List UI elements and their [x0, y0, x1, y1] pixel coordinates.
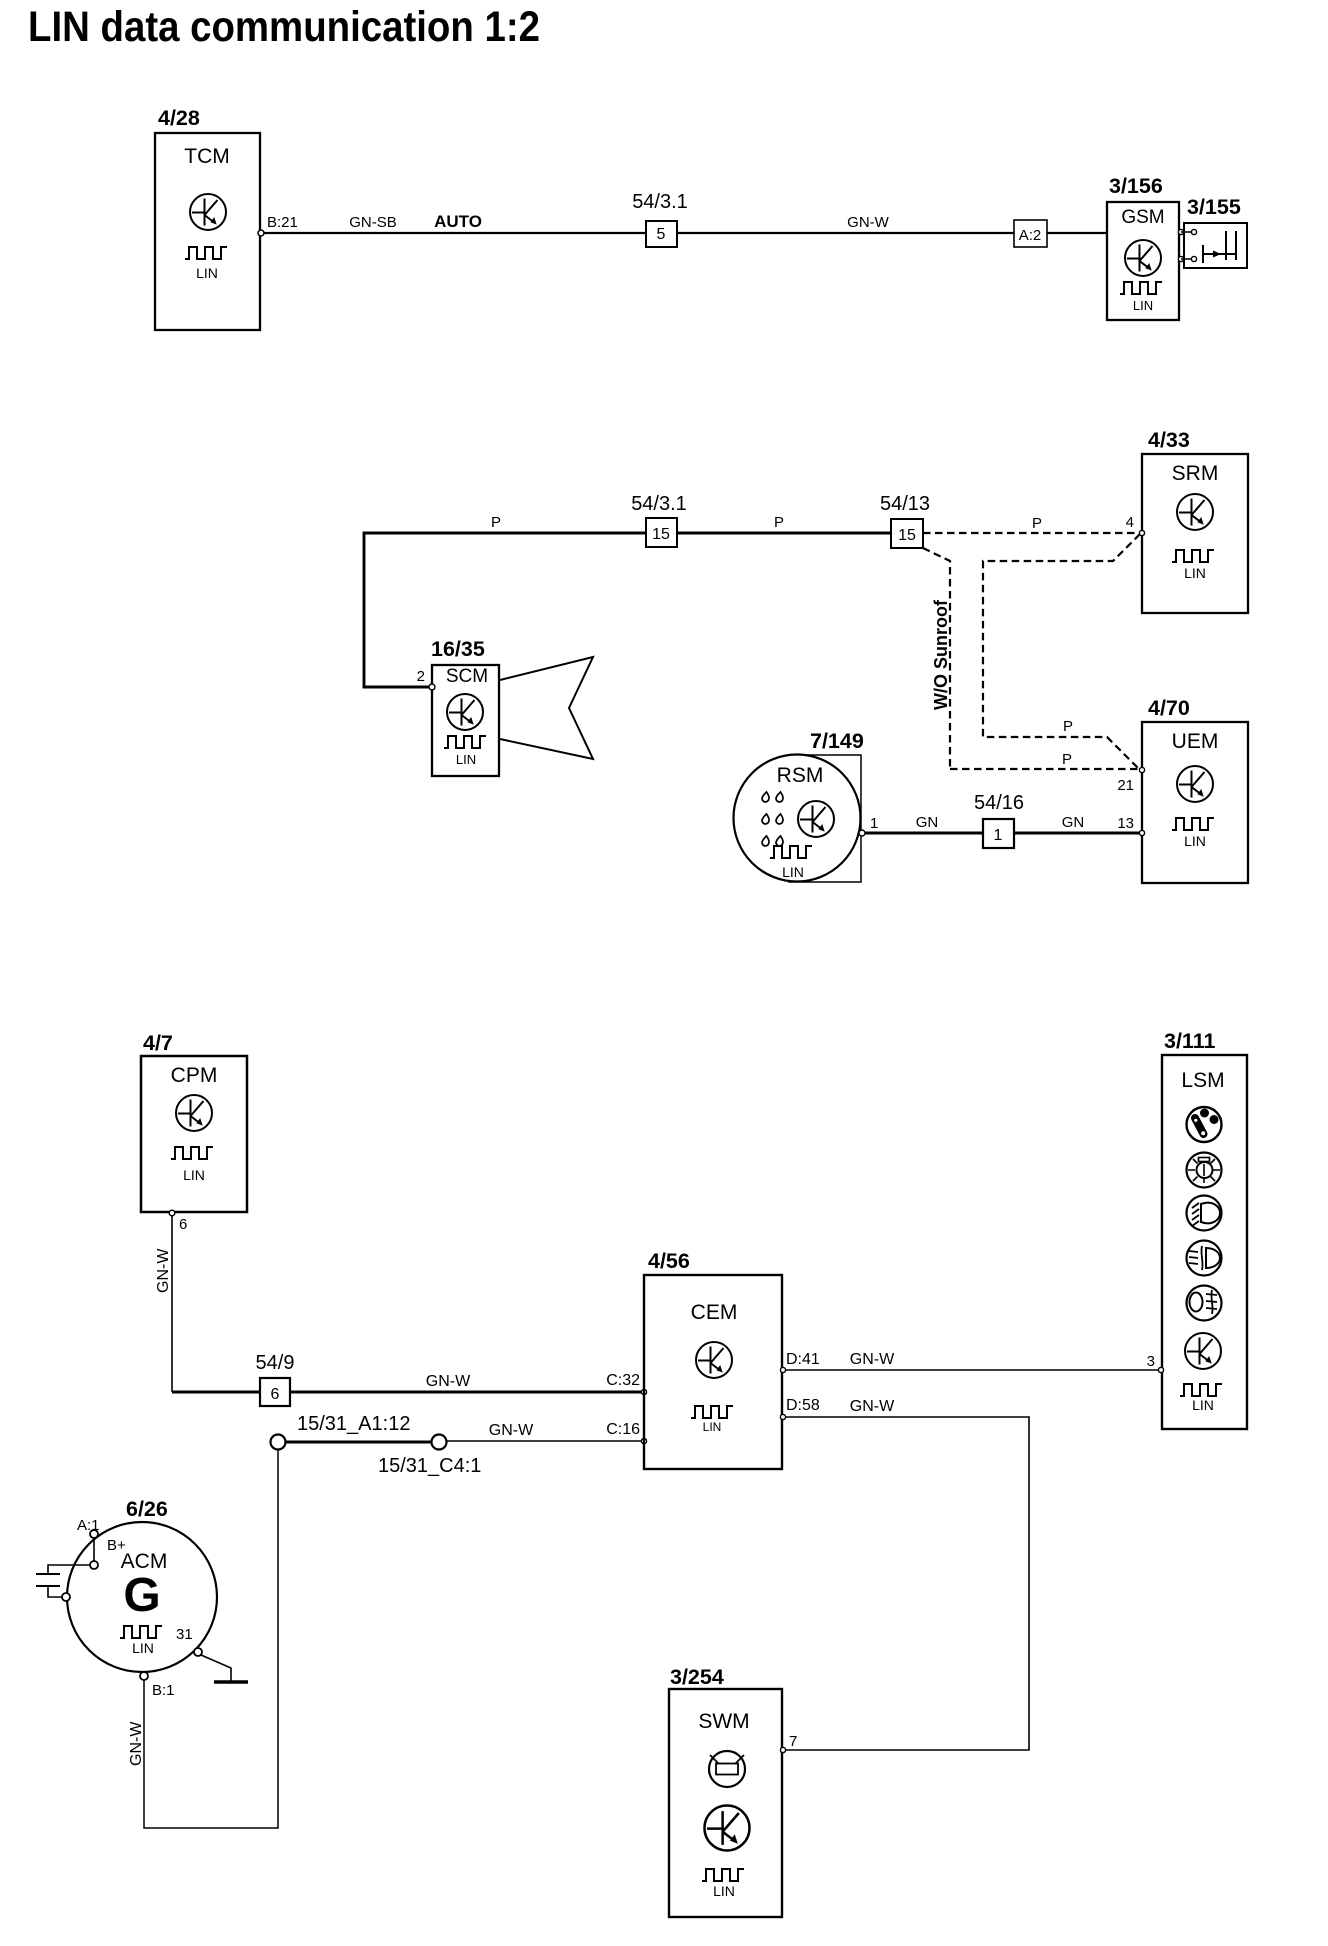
svg-text:LIN: LIN — [1184, 565, 1206, 581]
svg-text:AUTO: AUTO — [434, 212, 482, 231]
svg-text:C:16: C:16 — [606, 1421, 640, 1438]
terminal SRM pin 4 — [1126, 514, 1145, 536]
svg-text:LIN data communication 1:2: LIN data communication 1:2 — [28, 3, 540, 51]
svg-text:GN-SB: GN-SB — [349, 214, 397, 231]
wire 54/16 to UEM pin13, GN — [1014, 814, 1139, 833]
svg-text:54/3.1: 54/3.1 — [632, 191, 688, 213]
svg-text:4/33: 4/33 — [1148, 428, 1190, 452]
svg-text:D:58: D:58 — [786, 1397, 820, 1414]
svg-text:3/155: 3/155 — [1187, 195, 1241, 219]
svg-text:GN-W: GN-W — [850, 1351, 895, 1368]
svg-text:4/7: 4/7 — [143, 1031, 173, 1055]
svg-text:LIN: LIN — [703, 1420, 722, 1434]
battery feed symbol at B+ — [36, 1565, 90, 1601]
svg-text:CEM: CEM — [691, 1301, 738, 1324]
svg-text:P: P — [1032, 515, 1042, 532]
junction 15/31_A1:12 — [271, 1413, 411, 1450]
connector A:2 — [1014, 220, 1047, 247]
SWM icon switch pack — [709, 1751, 745, 1787]
svg-text:P: P — [1063, 718, 1073, 735]
svg-text:54/16: 54/16 — [974, 792, 1024, 814]
terminal TCM B:21 — [258, 214, 298, 236]
terminal CEM D:41 — [780, 1351, 819, 1373]
svg-text:7: 7 — [789, 1733, 797, 1750]
svg-text:54/3.1: 54/3.1 — [631, 493, 687, 515]
dashed wire SRM to UEM vertical — [983, 534, 1140, 770]
LSM icon low beam — [1187, 1196, 1222, 1231]
SWM square wave LIN — [702, 1869, 744, 1899]
wire junction to CEM C:16, GN-W — [447, 1422, 642, 1441]
svg-text:D:41: D:41 — [786, 1351, 820, 1368]
svg-text:UEM: UEM — [1172, 730, 1219, 753]
svg-text:GN-W: GN-W — [847, 214, 889, 231]
terminal ACM 31 — [194, 1648, 202, 1656]
svg-text:21: 21 — [1117, 777, 1134, 794]
SWM icon K control — [705, 1806, 750, 1851]
terminal RSM pin 1 — [859, 815, 878, 836]
svg-text:GN-W: GN-W — [426, 1373, 471, 1390]
svg-text:LIN: LIN — [196, 265, 218, 281]
svg-text:RSM: RSM — [777, 764, 824, 787]
svg-text:B+: B+ — [107, 1537, 126, 1554]
svg-text:5: 5 — [657, 226, 666, 243]
svg-text:CPM: CPM — [171, 1064, 218, 1087]
svg-text:1: 1 — [870, 815, 878, 832]
wire RSM to 54/16, GN — [865, 814, 983, 833]
terminal CEM C:32 — [606, 1372, 646, 1395]
svg-text:3/156: 3/156 — [1109, 174, 1163, 198]
connector 54/3.1 pin 5 — [632, 191, 688, 247]
wire CEM D:58 to SWM pin7, GN-W — [785, 1398, 1029, 1750]
rain sensor module RSM 7/149 — [734, 729, 864, 882]
wire ACM B:1 to junction 15/31, GN-W — [128, 1450, 278, 1828]
wire A:2 to GSM — [1047, 232, 1107, 234]
LSM icon light switch — [1187, 1107, 1222, 1142]
terminal ACM B+ — [90, 1537, 126, 1569]
terminal LSM pin 3 — [1147, 1353, 1164, 1373]
wire 54/3.1 to A:2, GN-W — [677, 214, 1014, 233]
dashed wire W/O Sunroof branch from 54/13 — [923, 548, 951, 769]
svg-text:3/111: 3/111 — [1164, 1029, 1215, 1053]
dashed wire 54/13 to SRM pin4, P — [923, 515, 1139, 533]
svg-text:4/70: 4/70 — [1148, 696, 1190, 720]
ground — [214, 1680, 248, 1684]
svg-text:G: G — [123, 1569, 160, 1622]
generator module ACM 6/26 — [67, 1497, 217, 1672]
svg-text:13: 13 — [1117, 815, 1134, 832]
svg-text:16/35: 16/35 — [431, 637, 485, 661]
svg-text:3/254: 3/254 — [670, 1665, 724, 1689]
svg-text:W/O Sunroof: W/O Sunroof — [931, 599, 951, 710]
wire A:1 to B+ — [93, 1538, 95, 1561]
svg-text:A:2: A:2 — [1019, 227, 1042, 244]
svg-text:LSM: LSM — [1181, 1069, 1224, 1092]
svg-text:LIN: LIN — [1184, 833, 1206, 849]
svg-text:6: 6 — [271, 1386, 280, 1403]
steering wheel module SWM 3/254 — [669, 1665, 782, 1917]
terminals GSM to 3/155 links — [1178, 229, 1196, 261]
LSM square wave LIN — [1180, 1384, 1222, 1413]
connector 54/16 pin 1 — [974, 792, 1024, 848]
terminal SCM pin 2 — [417, 668, 435, 690]
terminal CEM C:16 — [606, 1421, 646, 1444]
svg-text:LIN: LIN — [1192, 1397, 1214, 1413]
terminal SWM pin 7 — [780, 1733, 797, 1753]
control module CEM 4/56 — [644, 1249, 782, 1469]
svg-text:6/26: 6/26 — [126, 1497, 168, 1521]
svg-text:15/31_C4:1: 15/31_C4:1 — [378, 1455, 481, 1477]
svg-text:LIN: LIN — [782, 864, 804, 880]
svg-text:LIN: LIN — [132, 1640, 154, 1656]
svg-text:P: P — [491, 514, 501, 531]
LSM icon K control — [1185, 1333, 1221, 1369]
wire junction segment 15/31 — [286, 1441, 432, 1444]
terminal ACM A:1 — [77, 1517, 100, 1538]
wire CPM to CEM C:32, GN-W — [172, 1373, 642, 1392]
svg-text:15: 15 — [898, 527, 916, 544]
terminal CPM pin 6 — [169, 1210, 187, 1233]
svg-text:GN-W: GN-W — [128, 1721, 145, 1766]
ground wire from 31 — [201, 1655, 231, 1681]
svg-text:TCM: TCM — [184, 145, 230, 168]
control module TCM 4/28 — [155, 106, 260, 330]
svg-text:GSM: GSM — [1121, 207, 1164, 228]
svg-text:1: 1 — [994, 827, 1003, 844]
terminal ACM B:1 — [140, 1672, 175, 1699]
svg-text:SWM: SWM — [698, 1710, 749, 1733]
control module SRM 4/33 — [1142, 428, 1248, 613]
antenna 3/155 — [1184, 195, 1247, 268]
wire CEM D:41 to LSM pin3, GN-W — [785, 1351, 1159, 1370]
svg-text:GN-W: GN-W — [850, 1398, 895, 1415]
svg-text:GN-W: GN-W — [155, 1248, 172, 1293]
wire 54/3.1 to 54/13, P — [677, 514, 891, 533]
horn symbol on SCM — [500, 657, 593, 759]
terminal UEM pin 13 — [1117, 815, 1144, 836]
svg-text:B:21: B:21 — [267, 214, 298, 231]
svg-text:4/56: 4/56 — [648, 1249, 690, 1273]
svg-text:15/31_A1:12: 15/31_A1:12 — [297, 1413, 410, 1435]
LSM icon rear fog — [1187, 1286, 1222, 1321]
terminal UEM pin 21 — [1117, 767, 1144, 794]
svg-text:54/13: 54/13 — [880, 493, 930, 515]
LSM icon front fog — [1187, 1241, 1222, 1276]
connector 54/3.1 pin 15 — [631, 493, 687, 547]
connector 54/9 pin 6 — [256, 1352, 295, 1406]
svg-text:LIN: LIN — [713, 1883, 735, 1899]
svg-text:2: 2 — [417, 668, 425, 685]
svg-text:LIN: LIN — [1133, 298, 1153, 313]
svg-text:4/28: 4/28 — [158, 106, 200, 130]
svg-text:LIN: LIN — [183, 1167, 205, 1183]
svg-text:31: 31 — [176, 1626, 193, 1643]
LSM icon parking light bulb — [1187, 1153, 1222, 1188]
svg-text:GN-W: GN-W — [489, 1422, 534, 1439]
junction 15/31_C4:1 — [378, 1435, 481, 1478]
svg-text:SRM: SRM — [1172, 462, 1219, 485]
control module CPM 4/7 — [141, 1031, 247, 1212]
svg-text:P: P — [1062, 751, 1072, 768]
light switch module LSM 3/111 — [1162, 1029, 1247, 1429]
wire SCM pin2 loop to 54/3.1 pin15, P — [364, 514, 646, 687]
svg-text:B:1: B:1 — [152, 1682, 175, 1699]
svg-text:SCM: SCM — [446, 666, 488, 687]
svg-text:LIN: LIN — [456, 752, 476, 767]
control module SCM 16/35 — [431, 637, 499, 776]
svg-text:7/149: 7/149 — [810, 729, 864, 753]
svg-text:54/9: 54/9 — [256, 1352, 295, 1374]
svg-text:15: 15 — [652, 526, 670, 543]
terminal CEM D:58 — [780, 1397, 819, 1420]
connector 54/13 pin 15 — [880, 493, 930, 548]
control module GSM 3/156 — [1107, 174, 1179, 320]
svg-text:4: 4 — [1126, 514, 1134, 531]
control module UEM 4/70 — [1142, 696, 1248, 883]
svg-text:C:32: C:32 — [606, 1372, 640, 1389]
svg-text:GN: GN — [916, 814, 939, 831]
svg-text:P: P — [774, 514, 784, 531]
wire CPM pin6 down, GN-W — [155, 1216, 172, 1392]
svg-text:6: 6 — [179, 1216, 187, 1233]
dashed wire W/O Sunroof to UEM pin21, P — [950, 751, 1139, 769]
svg-text:3: 3 — [1147, 1353, 1155, 1370]
wire TCM B:21 to connector 54/3.1 pin5, GN-SB AUTO — [264, 212, 646, 233]
svg-text:GN: GN — [1062, 814, 1085, 831]
